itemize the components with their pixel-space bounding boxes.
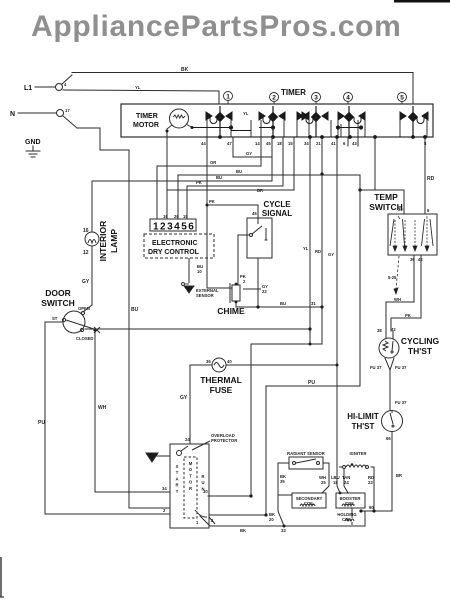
svg-text:30: 30 [398, 207, 403, 212]
svg-text:44: 44 [201, 141, 206, 146]
svg-text:3: 3 [314, 95, 318, 102]
svg-text:24: 24 [185, 437, 190, 442]
svg-text:40: 40 [227, 359, 232, 364]
svg-text:INTERIOR: INTERIOR [98, 221, 108, 262]
svg-text:SIGNAL: SIGNAL [262, 209, 292, 218]
svg-text:WH: WH [394, 297, 401, 302]
svg-text:PU: PU [38, 420, 45, 426]
svg-text:FUSE: FUSE [210, 385, 233, 395]
svg-text:18: 18 [333, 480, 338, 485]
svg-text:RADIANT SENSOR: RADIANT SENSOR [287, 451, 325, 456]
svg-text:15: 15 [288, 141, 293, 146]
svg-text:5: 5 [400, 95, 404, 102]
svg-text:PK: PK [196, 180, 202, 185]
svg-text:PROTECTOR: PROTECTOR [211, 438, 237, 443]
svg-text:YL: YL [303, 246, 309, 251]
svg-text:66: 66 [386, 436, 391, 441]
svg-text:DOOR: DOOR [45, 288, 71, 298]
svg-text:36: 36 [206, 359, 211, 364]
svg-text:1: 1 [226, 94, 230, 101]
svg-text:R: R [175, 483, 178, 488]
svg-text:26: 26 [174, 214, 179, 219]
svg-text:18: 18 [277, 141, 282, 146]
svg-text:U: U [201, 480, 204, 485]
svg-text:16: 16 [163, 214, 168, 219]
svg-text:47: 47 [227, 141, 232, 146]
svg-text:15: 15 [183, 214, 188, 219]
svg-text:24: 24 [344, 480, 349, 485]
svg-text:BU: BU [216, 175, 222, 180]
svg-text:MOTOR: MOTOR [133, 122, 159, 129]
svg-text:ST: ST [52, 316, 58, 321]
svg-text:T: T [189, 473, 192, 478]
svg-text:BU: BU [236, 169, 242, 174]
svg-text:BU: BU [280, 301, 286, 306]
svg-text:THERMAL: THERMAL [200, 375, 242, 385]
svg-text:YL: YL [243, 111, 249, 116]
svg-text:ELECTRONIC: ELECTRONIC [152, 240, 198, 247]
svg-text:GY: GY [246, 151, 252, 156]
svg-text:31: 31 [311, 301, 316, 306]
svg-text:20: 20 [269, 517, 274, 522]
svg-text:N: N [10, 111, 15, 118]
svg-text:GY: GY [82, 279, 90, 285]
svg-text:21: 21 [316, 141, 321, 146]
svg-text:123456: 123456 [153, 222, 195, 233]
svg-text:FU 37: FU 37 [395, 400, 407, 405]
svg-text:41: 41 [331, 141, 336, 146]
svg-text:DRY CONTROL: DRY CONTROL [148, 249, 200, 256]
svg-text:S: S [176, 464, 179, 469]
svg-text:45: 45 [266, 141, 271, 146]
svg-text:GY: GY [328, 252, 334, 257]
svg-text:36: 36 [410, 257, 415, 262]
svg-text:PK: PK [209, 199, 215, 204]
svg-text:BR: BR [257, 188, 263, 193]
svg-text:RD: RD [315, 249, 321, 254]
svg-text:T: T [176, 489, 179, 494]
svg-text:A: A [175, 476, 178, 481]
svg-text:TIMER: TIMER [281, 88, 306, 97]
svg-text:OR: OR [210, 160, 216, 165]
svg-text:COIL: COIL [345, 501, 355, 506]
svg-text:TH'ST: TH'ST [352, 422, 375, 431]
svg-text:AppliancePartsPros.com: AppliancePartsPros.com [31, 10, 402, 43]
svg-text:IGNITER: IGNITER [350, 451, 367, 456]
svg-text:45: 45 [252, 211, 257, 216]
svg-text:12: 12 [83, 250, 89, 256]
svg-text:16: 16 [83, 228, 89, 234]
svg-text:HI-LIMIT: HI-LIMIT [347, 412, 379, 421]
svg-text:2: 2 [272, 95, 276, 102]
svg-text:4: 4 [346, 95, 350, 102]
svg-text:COIL: COIL [342, 517, 352, 522]
svg-text:GY: GY [180, 395, 188, 401]
svg-text:SENSOR: SENSOR [196, 293, 214, 298]
svg-text:LAMP: LAMP [109, 229, 119, 253]
svg-text:14: 14 [255, 141, 260, 146]
svg-text:CYCLE: CYCLE [263, 200, 291, 209]
svg-text:BR: BR [396, 473, 402, 478]
svg-text:FU 37: FU 37 [395, 365, 407, 370]
svg-text:FU 37: FU 37 [370, 365, 382, 370]
svg-text:5-25: 5-25 [388, 275, 397, 280]
svg-text:BK: BK [181, 67, 189, 73]
svg-text:CLOSED: CLOSED [76, 336, 93, 341]
svg-text:GND: GND [25, 139, 41, 146]
svg-text:35: 35 [280, 479, 285, 484]
svg-text:YL: YL [135, 85, 141, 90]
svg-text:42: 42 [391, 327, 396, 332]
svg-text:30: 30 [203, 489, 208, 494]
svg-text:10: 10 [197, 269, 202, 274]
svg-text:T: T [176, 470, 179, 475]
svg-text:43: 43 [352, 141, 357, 146]
svg-text:SWITCH: SWITCH [41, 298, 75, 308]
svg-text:TH'ST: TH'ST [408, 346, 433, 356]
svg-text:33: 33 [281, 528, 286, 533]
svg-text:TIMER: TIMER [136, 113, 158, 120]
svg-text:42: 42 [418, 257, 423, 262]
svg-text:WH: WH [98, 405, 107, 411]
svg-text:38: 38 [377, 328, 382, 333]
svg-text:22: 22 [262, 289, 267, 294]
svg-text:CHIME: CHIME [217, 306, 245, 316]
svg-text:M: M [189, 461, 193, 466]
svg-text:25: 25 [321, 480, 326, 485]
svg-text:PU: PU [308, 380, 315, 386]
svg-text:PK: PK [405, 313, 411, 318]
svg-text:RD: RD [427, 176, 435, 182]
svg-text:COIL: COIL [304, 501, 314, 506]
svg-text:R: R [201, 474, 204, 479]
svg-text:34: 34 [162, 486, 167, 491]
svg-text:TEMP: TEMP [374, 192, 398, 202]
svg-text:23: 23 [368, 480, 373, 485]
svg-text:BU: BU [131, 307, 139, 313]
svg-text:90: 90 [369, 505, 374, 510]
svg-text:CYCLING: CYCLING [401, 336, 440, 346]
svg-text:R: R [189, 486, 192, 491]
svg-text:L1: L1 [24, 85, 32, 92]
svg-text:17: 17 [65, 108, 70, 113]
svg-text:OPEN: OPEN [78, 306, 90, 311]
svg-text:34: 34 [304, 141, 309, 146]
svg-text:BK: BK [240, 528, 246, 533]
